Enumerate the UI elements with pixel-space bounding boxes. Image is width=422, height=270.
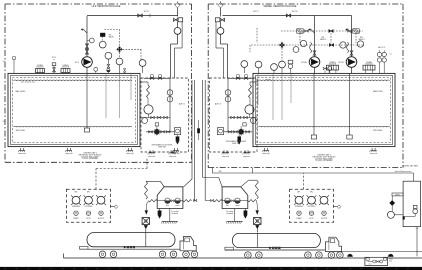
svg-text:PV-1: PV-1 xyxy=(52,57,56,59)
svg-text:PUMP SET: PUMP SET xyxy=(158,146,166,148)
svg-text:shop unfr: shop unfr xyxy=(18,153,26,155)
svg-text:SP-2B: SP-2B xyxy=(338,62,344,64)
svg-text:SPL: SPL xyxy=(297,192,300,194)
svg-text:REL: REL xyxy=(321,37,324,39)
svg-text:shop unfr: shop unfr xyxy=(222,155,229,158)
svg-text:25L-DSL-001: 25L-DSL-001 xyxy=(208,113,210,122)
svg-text:MIN LEVEL: MIN LEVEL xyxy=(16,130,25,132)
svg-text:NOZZLE: NOZZLE xyxy=(365,64,373,66)
svg-text:NOZZLE: NOZZLE xyxy=(62,67,70,69)
svg-text:xxxxx: xxxxx xyxy=(389,259,393,261)
svg-text:shop unfr: shop unfr xyxy=(148,155,155,158)
svg-text:DIESEL DAY TANK: DIESEL DAY TANK xyxy=(403,165,418,168)
svg-text:vehicle fill point sensor: vehicle fill point sensor xyxy=(395,170,412,173)
svg-text:MAX LEVEL: MAX LEVEL xyxy=(373,90,383,93)
svg-text:REL: REL xyxy=(360,37,363,39)
svg-text:shop unfr: shop unfr xyxy=(65,153,73,155)
svg-text:SPL: SPL xyxy=(74,192,77,194)
svg-text:25L-ULP-001: 25L-ULP-001 xyxy=(189,113,191,122)
svg-text:PUMP SET: PUMP SET xyxy=(232,143,240,145)
svg-text:E-STOP: E-STOP xyxy=(98,218,105,220)
svg-text:T-1: T-1 xyxy=(390,54,392,56)
svg-text:SPL: SPL xyxy=(310,192,313,194)
svg-text:RUNNING: RUNNING xyxy=(72,206,81,208)
svg-text:24: 24 xyxy=(3,61,5,63)
svg-text:SP-1: SP-1 xyxy=(75,62,79,64)
svg-text:STOPPED: STOPPED xyxy=(307,206,316,208)
svg-text:START: START xyxy=(73,217,78,220)
svg-text:110,000L (NOMINAL): 110,000L (NOMINAL) xyxy=(315,159,333,162)
svg-text:WCT-7: WCT-7 xyxy=(253,11,259,13)
svg-text:WCT-7: WCT-7 xyxy=(144,11,150,13)
svg-text:CBL: CBL xyxy=(218,171,222,173)
svg-text:24: 24 xyxy=(3,121,5,123)
svg-text:shop unfr: shop unfr xyxy=(126,153,134,155)
svg-text:shop unfr: shop unfr xyxy=(169,155,176,158)
svg-text:xx xxxx: xx xxxx xyxy=(265,79,271,81)
svg-text:STOPPED: STOPPED xyxy=(84,206,93,208)
svg-text:ULP VENDOR PACKAGE: ULP VENDOR PACKAGE xyxy=(92,5,121,8)
svg-text:REL: REL xyxy=(109,35,112,37)
svg-text:DIESEL VENDOR PACKAGE: DIESEL VENDOR PACKAGE xyxy=(264,5,297,8)
svg-text:SP-2A: SP-2A xyxy=(301,61,307,64)
svg-text:NOZZLE: NOZZLE xyxy=(329,64,337,66)
svg-text:shop unfr: shop unfr xyxy=(370,153,378,155)
svg-text:MAX LEVEL: MAX LEVEL xyxy=(16,90,26,93)
svg-text:AUTO 3: AUTO 3 xyxy=(215,103,221,106)
svg-text:RUNNING: RUNNING xyxy=(295,206,304,208)
svg-text:NOZZLE: NOZZLE xyxy=(36,67,44,69)
svg-text:xxxx: xxxx xyxy=(369,264,372,266)
svg-text:xx: xx xyxy=(53,59,55,61)
svg-text:AUTO 1: AUTO 1 xyxy=(179,103,185,106)
svg-text:shop unfr: shop unfr xyxy=(243,155,250,158)
svg-text:START: START xyxy=(296,217,301,220)
svg-text:xxxx xxxxxxx xxxx: xxxx xxxxxxx xxxx xyxy=(21,82,36,84)
svg-text:SPL: SPL xyxy=(87,192,90,194)
svg-text:AUTO 4: AUTO 4 xyxy=(378,46,384,49)
svg-text:shop unfr: shop unfr xyxy=(262,153,270,155)
svg-text:E-STOP: E-STOP xyxy=(321,218,328,220)
svg-text:MIN LEVEL: MIN LEVEL xyxy=(373,130,382,132)
svg-text:11,000L (NOMINAL): 11,000L (NOMINAL) xyxy=(82,157,99,160)
svg-text:xxxx: xxxx xyxy=(389,260,392,262)
svg-text:WCT-8: WCT-8 xyxy=(292,11,298,13)
